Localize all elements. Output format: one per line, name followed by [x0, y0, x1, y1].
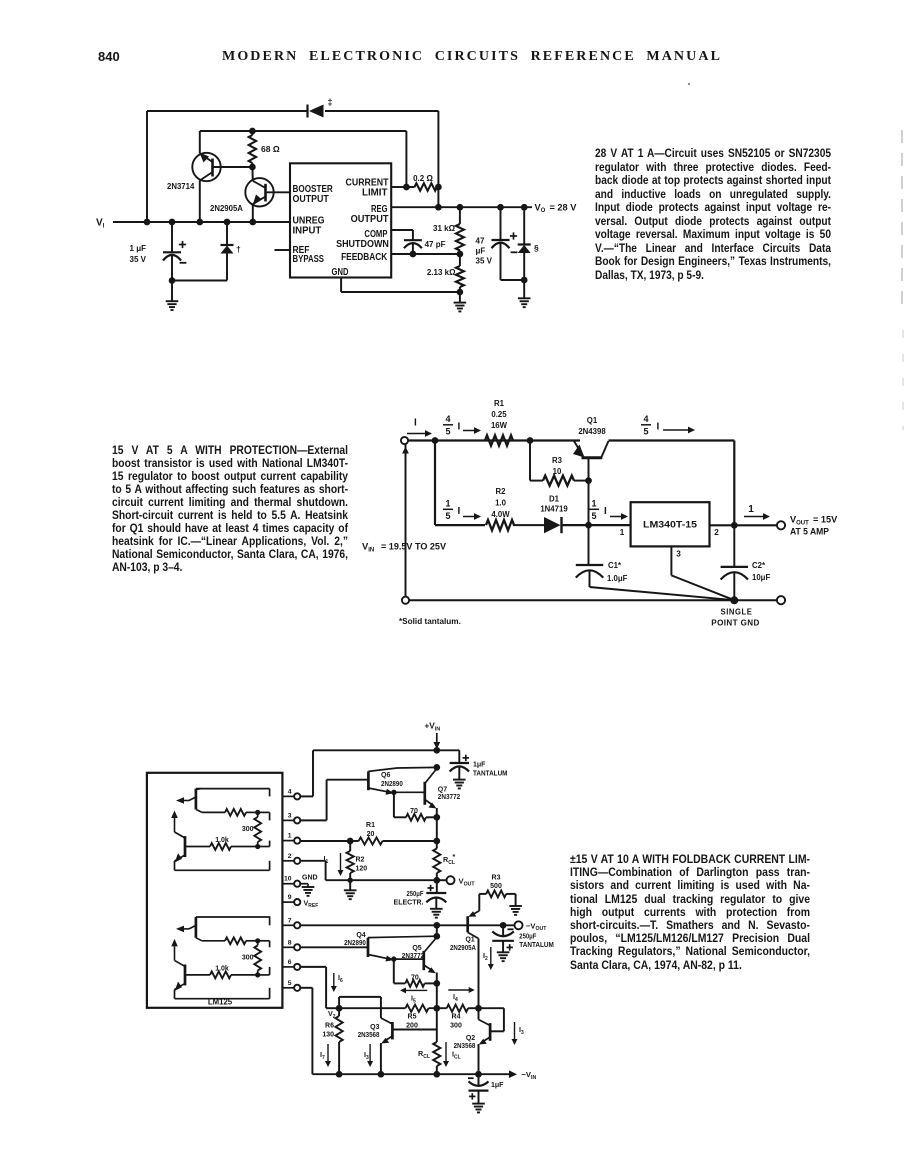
svg-text:TANTALUM: TANTALUM	[473, 771, 508, 778]
svg-text:4: 4	[288, 788, 292, 795]
label 70 bottom	[411, 975, 419, 982]
label R5 200	[406, 1014, 418, 1030]
wire T1 collector jog	[196, 789, 270, 797]
svg-text:I6: I6	[338, 973, 343, 984]
page header folio number	[98, 49, 120, 64]
svg-text:47 pF: 47 pF	[425, 240, 446, 249]
svg-text:GND: GND	[332, 267, 349, 278]
node R5 R4	[429, 1005, 447, 1012]
svg-text:5: 5	[288, 980, 292, 987]
T3 base lead	[196, 938, 225, 941]
svg-text:120: 120	[356, 866, 368, 873]
label RCL	[418, 1049, 430, 1060]
svg-text:0.25: 0.25	[491, 410, 507, 419]
capacitor 1uF tantalum top	[450, 750, 469, 788]
label VOUT 15V AT 5 AMP	[790, 515, 838, 537]
plus 250uF	[427, 885, 433, 891]
terminal gnd right	[777, 596, 785, 604]
svg-text:2: 2	[288, 853, 292, 860]
label I5	[411, 994, 416, 1005]
svg-text:R2: R2	[356, 857, 365, 864]
svg-text:1.0k: 1.0k	[215, 965, 229, 972]
printing speck	[688, 83, 690, 85]
IC box LM125	[147, 773, 283, 1008]
nodes 0.2 ohm	[403, 184, 442, 191]
node V1 rail x=172	[169, 219, 176, 226]
label I6	[338, 973, 343, 984]
label single point gnd	[711, 608, 759, 628]
node Q4 emitter	[391, 956, 396, 961]
wire pin6 to V2	[300, 967, 339, 1008]
svg-text:§: §	[534, 243, 539, 253]
diode input protection	[221, 222, 234, 281]
minus 47uF	[511, 251, 518, 253]
svg-text:5: 5	[591, 511, 596, 521]
capacitor 250uF electrolytic	[426, 880, 446, 917]
resistor RCL*	[433, 849, 440, 881]
plus 1uF tantalum	[463, 755, 469, 761]
label I7	[320, 1050, 325, 1061]
nodes -Vout rail	[433, 922, 506, 929]
node -VIN x=339.1	[336, 1071, 343, 1078]
svg-text:LM340T-15: LM340T-15	[643, 519, 697, 530]
capacitor 1uF negative	[469, 1074, 489, 1112]
transistor 2N3714	[192, 153, 252, 223]
regulator box LM340T-15	[631, 502, 710, 546]
svg-text:250μF: 250μF	[407, 891, 425, 898]
svg-text:R4: R4	[452, 1014, 461, 1021]
arrow +VIN	[433, 733, 440, 749]
label -VIN	[522, 1070, 537, 1081]
wire left riser	[146, 111, 148, 222]
arrowhead -VIN	[509, 1070, 517, 1078]
resistor 300 bottom	[254, 941, 261, 975]
node Q6 emitter	[391, 790, 396, 795]
svg-text:10μF: 10μF	[752, 573, 770, 582]
wire output cap bottom	[501, 279, 525, 281]
nodes top rail	[432, 437, 534, 444]
note solid tantalum	[399, 617, 461, 626]
svg-text:I3: I3	[519, 1025, 524, 1036]
svg-text:5: 5	[445, 427, 450, 437]
svg-text:R5: R5	[408, 1014, 417, 1021]
label 0.2 ohm	[413, 174, 433, 183]
wire -Vout rail	[300, 924, 514, 926]
label 31k	[433, 224, 456, 233]
svg-text:6: 6	[288, 959, 292, 966]
transistor Q1 2N2905A	[468, 911, 480, 1008]
label R1 20	[366, 822, 375, 838]
label 2N3714	[167, 182, 195, 191]
label 250uF TANTALUM	[519, 933, 554, 949]
label I3	[519, 1025, 524, 1036]
pin label CURRENT LIMIT	[346, 178, 390, 199]
wire Q1 collector to Q2	[478, 1008, 480, 1019]
ground R3	[509, 894, 522, 915]
arrow up input	[402, 447, 409, 463]
node -VIN x=436.8	[433, 1071, 440, 1078]
svg-text:8: 8	[288, 939, 292, 946]
label I	[414, 418, 417, 429]
T1 emitter arrow	[176, 797, 196, 804]
stub REF BYPASS	[275, 249, 291, 251]
svg-text:+VIN: +VIN	[425, 722, 441, 733]
svg-text:R2: R2	[496, 487, 507, 496]
pin number 9	[288, 894, 292, 901]
pin 8 LM125	[282, 944, 300, 950]
pin 6 LM125	[282, 964, 300, 970]
label 300 top	[242, 826, 254, 833]
label 2.13k	[427, 268, 456, 277]
wire collector to output	[609, 441, 735, 526]
wire pin2 to Vout node	[300, 861, 437, 880]
svg-text:BYPASS: BYPASS	[293, 254, 325, 265]
svg-text:I2: I2	[483, 951, 488, 962]
arrow I4	[448, 987, 474, 993]
wire pin 3	[670, 546, 672, 575]
label 4/5 I out	[641, 414, 660, 437]
label R6 130	[322, 1023, 334, 1039]
svg-text:Q1: Q1	[587, 416, 598, 425]
wire output	[710, 524, 777, 526]
label 70 top	[410, 808, 418, 815]
pin number 4	[288, 788, 292, 795]
pin 3 LM125	[282, 817, 300, 823]
pin number 3	[288, 812, 292, 819]
resistor R2 120	[347, 841, 354, 880]
wire V1 input rail	[113, 221, 290, 223]
svg-text:Q3: Q3	[370, 1024, 379, 1031]
svg-text:Q6: Q6	[381, 772, 390, 779]
svg-text:35 V: 35 V	[476, 257, 493, 266]
label 300 bottom	[242, 954, 254, 961]
svg-text:1.0k: 1.0k	[215, 837, 229, 844]
label 4/5 I	[443, 414, 461, 437]
node reg output x=500.5	[497, 204, 504, 211]
plus 1uF	[469, 1093, 475, 1099]
svg-text:R3: R3	[492, 875, 501, 882]
svg-text:TANTALUM: TANTALUM	[519, 942, 554, 949]
label R4 300	[450, 1014, 462, 1030]
svg-text:35 V: 35 V	[130, 255, 147, 264]
circuit 3 : +-15V at 10A foldback limiter	[147, 722, 554, 1113]
label Q4 2N2890	[344, 932, 366, 947]
wire to pin8	[258, 941, 270, 948]
svg-text:0.2 Ω: 0.2 Ω	[413, 174, 433, 183]
node V2	[336, 1005, 343, 1012]
svg-text:‡: ‡	[328, 97, 333, 107]
pin label COMP SHUTDOWN	[336, 229, 389, 250]
label Q5 2N3772	[402, 945, 424, 960]
diode feedback (cathode left)	[308, 105, 324, 118]
svg-text:VREF: VREF	[304, 898, 319, 909]
label 1/5 I input	[589, 498, 607, 521]
regulator IC box SN52105	[290, 163, 391, 277]
svg-text:2N2890: 2N2890	[381, 781, 403, 788]
ground pin10	[300, 884, 314, 896]
svg-text:2.13 kΩ: 2.13 kΩ	[427, 268, 456, 277]
svg-text:250μF: 250μF	[519, 933, 537, 940]
svg-text:1: 1	[748, 504, 754, 515]
svg-text:FEEDBACK: FEEDBACK	[341, 252, 388, 263]
transistor Q1 2N4398	[573, 441, 609, 481]
svg-text:*Solid tantalum.: *Solid tantalum.	[399, 617, 461, 626]
label I4	[453, 992, 458, 1003]
label VIN range	[362, 541, 447, 554]
label R1 0.25 16W	[491, 399, 508, 430]
wire to pin5	[269, 988, 271, 999]
pin label REG OUTPUT	[351, 204, 390, 225]
svg-text:2N4398: 2N4398	[578, 427, 606, 436]
label GND	[302, 875, 318, 882]
terminal Vout positive	[437, 876, 455, 884]
transistor Q2 2N3568	[479, 1008, 504, 1074]
label I1	[324, 854, 329, 865]
transistor internal T4	[171, 939, 269, 999]
resistor R1 20	[350, 837, 440, 844]
capacitor 1uF	[163, 222, 181, 281]
svg-text:−VIN: −VIN	[522, 1070, 537, 1081]
pin 5 LM125	[282, 985, 300, 991]
wire comp shutdown	[391, 230, 413, 240]
svg-text:300: 300	[242, 826, 254, 833]
capacitor 47pF	[404, 240, 422, 254]
label R2 1.0 4.0W	[491, 487, 510, 519]
wire cap-diode bottom	[172, 280, 227, 282]
wire current limit pin	[391, 186, 406, 188]
svg-text:2N3568: 2N3568	[454, 1043, 476, 1050]
label C2 10uF	[752, 561, 770, 582]
svg-text:Q7: Q7	[438, 787, 447, 794]
wire bottom rail	[409, 599, 777, 601]
node gnd	[457, 289, 464, 296]
page scan artifact line	[902, 130, 903, 430]
label 1 current	[748, 504, 754, 515]
arrow I3 left	[367, 1044, 373, 1067]
label I2	[483, 951, 488, 962]
svg-text:I3: I3	[364, 1050, 369, 1061]
svg-text:I: I	[458, 422, 461, 433]
label 47uF 35V	[476, 237, 493, 266]
svg-text:10: 10	[553, 467, 562, 476]
svg-text:1N4719: 1N4719	[540, 505, 568, 514]
wire lower branch	[435, 441, 485, 526]
svg-text:68 Ω: 68 Ω	[261, 144, 280, 154]
svg-text:Q2: Q2	[466, 1035, 475, 1042]
pin number 7	[288, 917, 292, 924]
ground regulator	[454, 292, 467, 311]
node +VIN	[433, 747, 440, 754]
resistor 70 bottom	[394, 959, 440, 987]
label 68 ohm	[261, 144, 280, 154]
circuit 1 : 28V at 1A regulator	[96, 97, 577, 311]
label 1uF	[491, 1082, 504, 1089]
svg-text:*: *	[453, 852, 456, 861]
capacitor 250uF tantalum	[492, 925, 514, 961]
svg-text:1: 1	[591, 498, 596, 508]
svg-text:9: 9	[288, 894, 292, 901]
resistor 1.0k top	[210, 843, 260, 850]
resistor R6 130	[336, 1008, 343, 1074]
svg-text:10: 10	[284, 876, 292, 883]
wire -Vout to collectors	[436, 925, 438, 936]
caption text +-15V at 10A	[570, 853, 810, 972]
label 1/5 I lower	[443, 498, 461, 521]
svg-text:= 28 V: = 28 V	[550, 202, 578, 212]
svg-text:C2*: C2*	[752, 561, 766, 570]
wire top rail	[408, 439, 580, 441]
transistor internal T3 bar+collector	[196, 917, 270, 938]
label R2 120	[356, 857, 368, 873]
pin number 8	[288, 939, 292, 946]
node -VIN x=478.5	[475, 1071, 482, 1078]
svg-text:1μF: 1μF	[491, 1082, 504, 1089]
wire +VIN rail	[313, 749, 459, 751]
svg-text:4: 4	[445, 414, 450, 424]
T3 emitter arrow	[176, 925, 196, 932]
node reg output x=524.2	[521, 204, 528, 211]
wire pin3 to Q6 base	[300, 780, 368, 821]
transistor internal T2	[171, 811, 269, 871]
pin 9 LM125	[282, 899, 300, 905]
label Q6 2N2890	[381, 772, 403, 788]
diode D1 1N4719	[544, 517, 562, 533]
label Q2 2N3568	[454, 1035, 476, 1050]
svg-text:ELECTR.: ELECTR.	[394, 900, 424, 907]
pin label REF BYPASS	[293, 245, 325, 265]
node cap bottom	[169, 277, 176, 284]
wire pin5 riser	[300, 988, 312, 1074]
svg-text:= 15V: = 15V	[813, 515, 838, 525]
nodes feedback	[410, 251, 464, 258]
pin label UNREG INPUT	[293, 216, 325, 237]
terminal gnd left	[402, 597, 409, 604]
wire feedback	[391, 253, 460, 255]
label section	[534, 243, 539, 253]
resistor 70 top	[394, 792, 440, 820]
pin label FEEDBACK	[341, 252, 388, 263]
svg-text:R1: R1	[366, 822, 375, 829]
pin number 2	[288, 853, 292, 860]
svg-text:VO: VO	[535, 202, 546, 214]
node internal bottom	[246, 938, 260, 943]
wire C1 to single point	[590, 587, 735, 600]
svg-text:I4: I4	[453, 992, 458, 1003]
resistor R1	[485, 435, 513, 445]
arrow I6	[331, 973, 337, 992]
capacitor 47uF	[492, 207, 510, 280]
label LM125	[208, 998, 233, 1007]
svg-text:2N3772: 2N3772	[402, 953, 424, 960]
wire to pin3	[258, 812, 270, 820]
label Q7 2N3772	[438, 787, 460, 802]
label 1.0k bottom	[215, 965, 229, 972]
svg-text:SINGLE: SINGLE	[721, 608, 753, 617]
transistor Q7 2N3772	[394, 769, 437, 818]
node Vout	[433, 877, 440, 884]
label D1 1N4719	[540, 495, 568, 514]
label RCL*	[443, 852, 456, 866]
arrow I1	[338, 853, 344, 876]
svg-text:2: 2	[714, 528, 719, 537]
label LM340T-15	[643, 519, 697, 530]
wire -VIN rail	[312, 1073, 509, 1075]
svg-text:D1: D1	[549, 495, 560, 504]
node V1 rail x=227	[224, 219, 231, 226]
svg-text:2N2905A: 2N2905A	[450, 945, 476, 952]
resistor R4 300	[447, 1005, 468, 1012]
svg-text:POINT GND: POINT GND	[711, 619, 759, 628]
node V1 rail x=252.8	[249, 219, 256, 226]
svg-text:1: 1	[620, 528, 625, 537]
wire V2 to R5	[339, 1007, 405, 1009]
pin 10 LM125	[282, 881, 300, 887]
arrow output current	[744, 513, 770, 520]
transistor internal T1 bar+collector	[196, 789, 270, 810]
svg-text:INPUT: INPUT	[293, 226, 322, 237]
arrow I	[407, 430, 432, 437]
svg-text:ICL: ICL	[452, 1050, 461, 1061]
ground output	[518, 280, 531, 307]
pin 2 LM125	[282, 858, 300, 864]
wire to pin1	[258, 841, 270, 847]
node output	[731, 522, 738, 529]
pin 7 LM125	[282, 922, 300, 928]
label V_I	[96, 218, 105, 230]
svg-text:5: 5	[643, 427, 648, 437]
node R2 bottom	[348, 878, 353, 883]
resistor 68 ohm	[249, 131, 256, 167]
svg-text:500: 500	[490, 883, 502, 890]
resistor R3 500	[479, 891, 515, 898]
resistor 1.0k bottom	[210, 972, 260, 979]
label VO=28V	[535, 202, 578, 214]
arrow 1/5 I	[463, 513, 481, 520]
wire 70 to R5 node	[436, 983, 438, 1008]
resistor 2.13k	[456, 254, 464, 292]
pin 4 LM125	[282, 793, 300, 799]
node collectors Q4 Q5	[433, 933, 440, 940]
wire pin1 to R1	[300, 838, 353, 845]
svg-text:47: 47	[476, 237, 485, 246]
label 250uF ELECTR	[394, 891, 425, 907]
wire to 0.2 ohm left	[405, 131, 407, 187]
label Q1 2N4398	[578, 416, 606, 436]
svg-text:300: 300	[450, 1023, 462, 1030]
caption text 15V at 5A	[112, 444, 348, 574]
label 1uF tantalum	[473, 762, 508, 778]
wire to pin2	[269, 861, 271, 871]
node V1 rail x=199.8	[196, 219, 203, 226]
pin number 1	[288, 833, 292, 840]
label 1uF	[130, 244, 147, 253]
node -VIN x=380.9	[378, 1071, 385, 1078]
transistor Q3 2N3568	[339, 997, 437, 1074]
wire R1 node to R3	[530, 441, 543, 481]
node R4 right	[468, 1005, 482, 1012]
label VOUT	[459, 877, 476, 888]
svg-text:OUTPUT: OUTPUT	[293, 194, 330, 205]
svg-text:Q4: Q4	[356, 932, 365, 939]
svg-text:R1: R1	[494, 399, 505, 408]
arrow 4/5 I	[463, 427, 481, 434]
svg-text:1.0: 1.0	[495, 499, 507, 508]
svg-text:R3: R3	[552, 456, 563, 465]
svg-text:1: 1	[445, 498, 450, 508]
pin label GND	[332, 267, 349, 278]
svg-text:2N2890: 2N2890	[344, 940, 366, 947]
svg-text:VIN: VIN	[362, 541, 374, 554]
